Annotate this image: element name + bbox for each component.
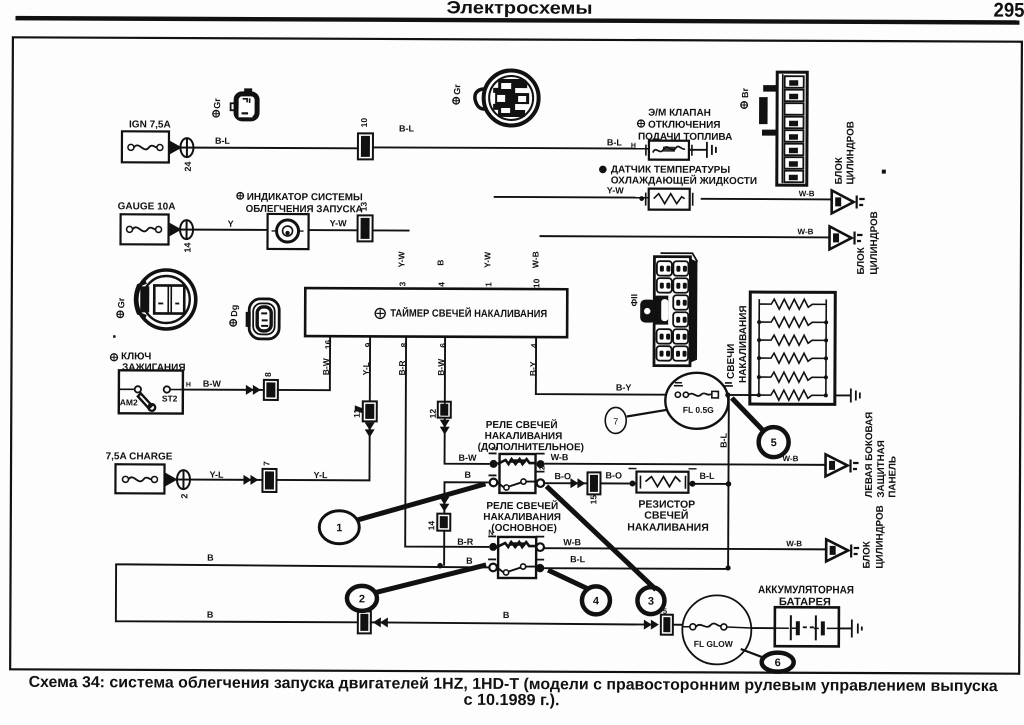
svg-text:B-Y: B-Y [616, 382, 632, 392]
svg-text:БЛОК: БЛОК [856, 247, 867, 274]
svg-text:ЦИЛИНДРОВ: ЦИЛИНДРОВ [845, 121, 856, 184]
svg-text:ЛЕВАЯ БОКОВАЯ: ЛЕВАЯ БОКОВАЯ [864, 412, 875, 498]
svg-text:НАКАЛИВАНИЯ: НАКАЛИВАНИЯ [738, 305, 749, 383]
svg-text:7,5A CHARGE: 7,5A CHARGE [106, 451, 173, 462]
svg-text:B-Y: B-Y [528, 361, 538, 376]
svg-text:8: 8 [263, 372, 273, 377]
svg-text:B-L: B-L [699, 471, 715, 481]
svg-text:Dg: Dg [229, 305, 239, 317]
svg-text:Y-L: Y-L [313, 470, 328, 480]
svg-text:B: B [466, 556, 473, 566]
svg-text:B-L: B-L [215, 136, 231, 146]
svg-text:СВЕЧИ: СВЕЧИ [726, 344, 737, 379]
svg-text:15: 15 [588, 495, 598, 505]
svg-text:ST2: ST2 [162, 393, 178, 403]
svg-text:НАКАЛИВАНИЯ: НАКАЛИВАНИЯ [627, 522, 709, 534]
svg-text:H: H [186, 382, 191, 389]
svg-text:1: 1 [336, 522, 342, 534]
svg-text:РЕЛЕ СВЕЧЕЙ: РЕЛЕ СВЕЧЕЙ [486, 418, 558, 431]
svg-text:AM2: AM2 [120, 397, 138, 407]
svg-text:ЗАЖИГАНИЯ: ЗАЖИГАНИЯ [122, 362, 186, 373]
svg-text:4: 4 [593, 595, 600, 607]
svg-text:8: 8 [399, 343, 409, 348]
svg-text:W-B: W-B [530, 251, 540, 268]
svg-text:ЦИЛИНДРОВ: ЦИЛИНДРОВ [869, 211, 880, 274]
svg-text:B-R: B-R [397, 360, 407, 375]
svg-text:1: 1 [483, 282, 493, 287]
svg-text:B-O: B-O [605, 470, 622, 480]
svg-text:БЛОК: БЛОК [862, 541, 873, 568]
svg-text:W-B: W-B [799, 189, 815, 198]
svg-text:Y: Y [228, 219, 234, 229]
svg-text:B-R: B-R [457, 537, 474, 547]
svg-text:10: 10 [531, 278, 541, 288]
svg-text:ТАЙМЕР СВЕЧЕЙ НАКАЛИВАНИЯ: ТАЙМЕР СВЕЧЕЙ НАКАЛИВАНИЯ [390, 306, 547, 320]
svg-text:W-B: W-B [783, 454, 799, 463]
svg-text:с 10.1989 г.).: с 10.1989 г.). [463, 692, 559, 709]
svg-text:Br: Br [740, 87, 750, 98]
svg-text:B-W: B-W [436, 358, 446, 376]
svg-text:W-B: W-B [798, 227, 814, 236]
svg-text:Электросхемы: Электросхемы [446, 0, 592, 18]
svg-text:B: B [207, 610, 214, 620]
svg-text:B-W: B-W [321, 357, 331, 375]
svg-text:B: B [464, 470, 471, 480]
svg-text:5: 5 [771, 437, 777, 449]
svg-text:РЕЛЕ СВЕЧЕЙ: РЕЛЕ СВЕЧЕЙ [486, 499, 558, 512]
svg-text:6: 6 [438, 343, 448, 348]
svg-text:Y-L: Y-L [361, 362, 371, 375]
svg-text:НАКАЛИВАНИЯ: НАКАЛИВАНИЯ [485, 431, 563, 442]
svg-text:24: 24 [183, 162, 193, 172]
svg-text:Y-W: Y-W [396, 250, 406, 267]
svg-text:B-W: B-W [203, 379, 222, 389]
svg-text:B-L: B-L [399, 124, 415, 134]
svg-text:B: B [503, 610, 510, 620]
svg-text:16: 16 [323, 339, 333, 349]
svg-text:W-B: W-B [551, 452, 569, 462]
svg-text:2: 2 [179, 494, 189, 499]
svg-text:2: 2 [538, 466, 547, 470]
svg-text:(ДОПОЛНИТЕЛЬНОЕ): (ДОПОЛНИТЕЛЬНОЕ) [478, 442, 584, 453]
svg-text:3: 3 [397, 281, 407, 286]
svg-text:АККУМУЛЯТОРНАЯ: АККУМУЛЯТОРНАЯ [758, 584, 854, 596]
svg-text:B: B [435, 260, 445, 266]
svg-text:B: B [207, 553, 214, 563]
svg-text:B-W: B-W [459, 453, 478, 463]
svg-text:ОХЛАЖДАЮЩЕЙ ЖИДКОСТИ: ОХЛАЖДАЮЩЕЙ ЖИДКОСТИ [611, 173, 757, 187]
svg-text:7: 7 [613, 416, 618, 426]
svg-text:ОБЛЕГЧЕНИЯ ЗАПУСКА: ОБЛЕГЧЕНИЯ ЗАПУСКА [246, 204, 363, 216]
svg-text:КЛЮЧ: КЛЮЧ [121, 351, 151, 362]
svg-text:B-L: B-L [719, 432, 729, 448]
svg-text:Э/М КЛАПАН: Э/М КЛАПАН [648, 108, 711, 119]
svg-text:ПАНЕЛЬ: ПАНЕЛЬ [887, 456, 898, 498]
svg-text:СВЕЧЕЙ: СВЕЧЕЙ [644, 509, 688, 522]
svg-text:4: 4 [436, 282, 446, 287]
svg-text:Y-W: Y-W [482, 251, 492, 268]
svg-text:FL 0.5G: FL 0.5G [683, 405, 714, 415]
svg-text:GAUGE 10A: GAUGE 10A [118, 201, 176, 212]
svg-text:14: 14 [182, 243, 192, 253]
svg-text:6: 6 [775, 657, 781, 669]
svg-text:НАКАЛИВАНИЯ: НАКАЛИВАНИЯ [483, 512, 561, 523]
svg-text:W-B: W-B [786, 539, 802, 548]
svg-text:Gr: Gr [452, 84, 462, 95]
svg-text:295: 295 [993, 0, 1024, 22]
svg-text:2: 2 [359, 593, 365, 605]
svg-text:Gr: Gr [212, 98, 222, 109]
svg-text:ЦИЛИНДРОВ: ЦИЛИНДРОВ [875, 505, 886, 568]
svg-text:B-L: B-L [570, 554, 586, 564]
svg-text:B-L: B-L [607, 137, 623, 147]
svg-text:ИНДИКАТОР СИСТЕМЫ: ИНДИКАТОР СИСТЕМЫ [247, 192, 363, 204]
svg-text:ПОДАЧИ ТОПЛИВА: ПОДАЧИ ТОПЛИВА [638, 132, 732, 143]
svg-text:ФII: ФII [629, 294, 639, 307]
svg-text:B-O: B-O [554, 471, 571, 481]
svg-text:FL GLOW: FL GLOW [694, 639, 734, 649]
svg-text:Y-W: Y-W [607, 185, 625, 195]
svg-text:4: 4 [529, 343, 539, 348]
svg-text:IGN 7,5A: IGN 7,5A [129, 119, 171, 130]
svg-text:H: H [631, 143, 636, 150]
svg-text:Y-L: Y-L [209, 470, 224, 480]
svg-text:9: 9 [363, 342, 373, 347]
svg-text:ЗАЩИТНАЯ: ЗАЩИТНАЯ [876, 440, 887, 497]
svg-text:3: 3 [648, 596, 654, 608]
svg-text:12: 12 [428, 409, 438, 419]
svg-text:ОТКЛЮЧЕНИЯ: ОТКЛЮЧЕНИЯ [648, 120, 721, 131]
svg-text:Y-W: Y-W [330, 218, 348, 228]
svg-text:Gr: Gr [116, 297, 126, 308]
svg-text:(ОСНОВНОЕ): (ОСНОВНОЕ) [491, 523, 557, 534]
svg-text:14: 14 [426, 521, 436, 531]
svg-text:W-B: W-B [563, 537, 581, 547]
svg-text:ДАТЧИК ТЕМПЕРАТУРЫ: ДАТЧИК ТЕМПЕРАТУРЫ [611, 164, 731, 176]
svg-text:7: 7 [262, 461, 272, 466]
svg-text:10: 10 [359, 118, 369, 128]
svg-text:БЛОК: БЛОК [834, 157, 845, 184]
svg-text:БАТАРЕЯ: БАТАРЕЯ [779, 596, 831, 608]
